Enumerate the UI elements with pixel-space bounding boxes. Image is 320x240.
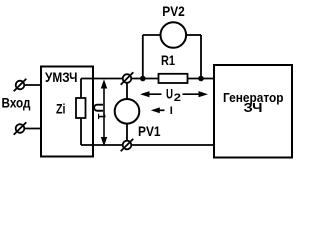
svg-text:I: I (170, 105, 173, 117)
svg-text:U: U (166, 86, 173, 102)
svg-text:PV1: PV1 (138, 123, 161, 139)
svg-text:ЗЧ: ЗЧ (244, 100, 263, 115)
svg-text:УМЗЧ: УМЗЧ (45, 69, 78, 85)
svg-text:1: 1 (95, 113, 107, 120)
svg-text:R1: R1 (161, 52, 175, 68)
svg-text:U: U (91, 103, 107, 113)
svg-text:PV2: PV2 (162, 3, 185, 19)
svg-text:Вход: Вход (2, 95, 31, 111)
svg-text:Zi: Zi (56, 101, 66, 117)
svg-text:2: 2 (174, 92, 181, 104)
